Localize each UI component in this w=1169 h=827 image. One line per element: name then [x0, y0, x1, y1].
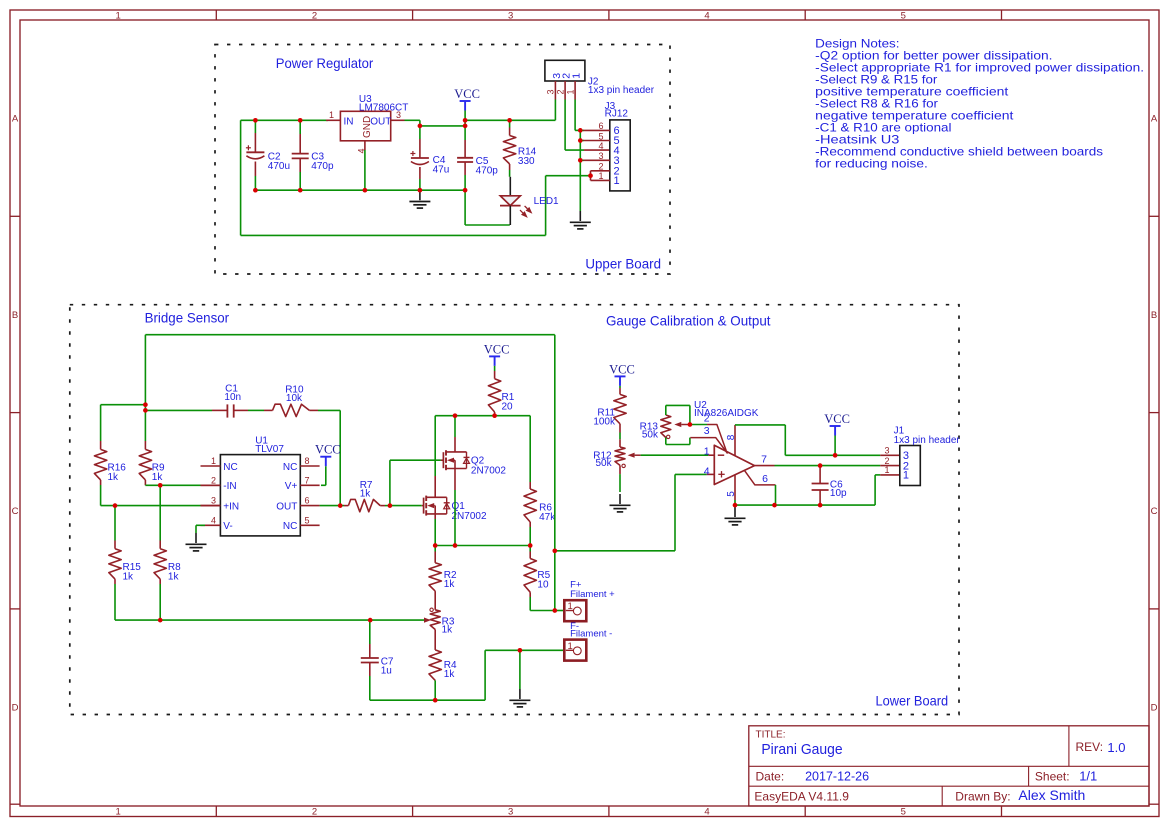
- svg-text:VCC: VCC: [824, 412, 850, 426]
- svg-text:OUT: OUT: [370, 117, 391, 128]
- svg-text:1k: 1k: [360, 489, 372, 500]
- svg-text:VCC: VCC: [484, 342, 510, 356]
- svg-text:+IN: +IN: [223, 501, 239, 512]
- svg-text:INA826AIDGK: INA826AIDGK: [694, 408, 759, 419]
- svg-text:NC: NC: [283, 521, 297, 532]
- svg-text:1: 1: [903, 470, 909, 482]
- svg-text:1/1: 1/1: [1079, 769, 1097, 784]
- svg-text:RJ12: RJ12: [605, 109, 629, 120]
- svg-text:Gauge Calibration & Output: Gauge Calibration & Output: [606, 313, 771, 329]
- svg-text:1: 1: [116, 807, 121, 818]
- svg-text:Power Regulator: Power Regulator: [276, 55, 374, 71]
- svg-text:REV:: REV:: [1076, 740, 1104, 754]
- svg-text:4: 4: [704, 465, 710, 477]
- svg-text:A: A: [12, 114, 19, 125]
- svg-text:3: 3: [546, 89, 556, 94]
- svg-text:1k: 1k: [108, 472, 120, 483]
- svg-text:1k: 1k: [152, 472, 164, 483]
- svg-text:C: C: [1151, 506, 1158, 517]
- svg-text:1u: 1u: [381, 666, 392, 677]
- svg-text:1: 1: [884, 465, 889, 475]
- svg-text:-IN: -IN: [223, 481, 236, 492]
- svg-text:1k: 1k: [123, 571, 135, 582]
- svg-text:1: 1: [614, 175, 620, 187]
- svg-text:7: 7: [305, 475, 310, 485]
- svg-text:6: 6: [305, 496, 310, 506]
- svg-text:10k: 10k: [286, 393, 303, 404]
- svg-text:5: 5: [901, 807, 906, 818]
- svg-text:D: D: [1151, 703, 1158, 714]
- svg-text:50k: 50k: [642, 429, 659, 440]
- svg-text:1k: 1k: [442, 625, 454, 636]
- svg-text:VCC: VCC: [609, 362, 635, 376]
- svg-text:A: A: [1151, 114, 1158, 125]
- svg-text:5: 5: [305, 515, 310, 525]
- svg-text:1: 1: [211, 456, 216, 466]
- svg-text:Filament +: Filament +: [570, 589, 615, 600]
- svg-text:C: C: [12, 506, 19, 517]
- svg-text:8: 8: [726, 434, 737, 440]
- svg-text:Bridge Sensor: Bridge Sensor: [145, 309, 230, 325]
- svg-text:2N7002: 2N7002: [471, 465, 506, 476]
- svg-text:4: 4: [598, 141, 603, 151]
- svg-text:TLV07: TLV07: [255, 444, 284, 455]
- svg-text:VCC: VCC: [315, 443, 341, 457]
- svg-text:3: 3: [704, 425, 710, 437]
- svg-text:Pirani Gauge: Pirani Gauge: [761, 741, 842, 758]
- svg-text:10: 10: [537, 579, 549, 590]
- svg-text:Sheet:: Sheet:: [1035, 770, 1070, 784]
- svg-text:470p: 470p: [311, 161, 334, 172]
- svg-text:3: 3: [884, 446, 889, 456]
- svg-text:Alex Smith: Alex Smith: [1018, 787, 1085, 803]
- svg-text:V-: V-: [223, 521, 232, 532]
- svg-text:5: 5: [726, 491, 737, 497]
- svg-text:Lower Board: Lower Board: [876, 692, 949, 708]
- svg-text:470u: 470u: [268, 161, 290, 172]
- svg-text:50k: 50k: [595, 458, 612, 469]
- svg-text:IN: IN: [344, 117, 354, 128]
- svg-text:470p: 470p: [476, 165, 499, 176]
- svg-text:47u: 47u: [433, 165, 450, 176]
- svg-text:1: 1: [565, 89, 575, 94]
- svg-text:10n: 10n: [224, 392, 241, 403]
- svg-text:100k: 100k: [593, 417, 616, 428]
- svg-text:1x3 pin header: 1x3 pin header: [588, 85, 655, 96]
- svg-text:D: D: [12, 703, 19, 714]
- svg-text:1k: 1k: [444, 669, 456, 680]
- svg-text:4: 4: [211, 515, 216, 525]
- svg-text:1k: 1k: [444, 579, 456, 590]
- svg-text:EasyEDA V4.11.9: EasyEDA V4.11.9: [754, 789, 849, 803]
- svg-text:OUT: OUT: [276, 501, 297, 512]
- svg-text:1: 1: [571, 73, 583, 79]
- svg-text:Drawn By:: Drawn By:: [955, 789, 1010, 803]
- svg-text:2: 2: [312, 807, 317, 818]
- svg-text:LM7806CT: LM7806CT: [359, 102, 408, 113]
- svg-text:Date:: Date:: [756, 770, 785, 784]
- svg-text:2: 2: [312, 10, 317, 21]
- svg-text:7: 7: [761, 454, 767, 466]
- svg-text:20: 20: [502, 402, 514, 413]
- svg-text:for reducing noise.: for reducing noise.: [815, 156, 928, 170]
- svg-text:47k: 47k: [539, 512, 556, 523]
- svg-text:1k: 1k: [168, 571, 180, 582]
- svg-text:GND: GND: [362, 116, 373, 138]
- svg-text:3: 3: [508, 10, 513, 21]
- svg-text:8: 8: [305, 456, 310, 466]
- svg-text:Filament -: Filament -: [570, 629, 612, 640]
- svg-text:2: 2: [211, 475, 216, 485]
- svg-text:6: 6: [762, 473, 768, 485]
- svg-text:330: 330: [518, 156, 535, 167]
- svg-text:3: 3: [211, 496, 216, 506]
- svg-text:B: B: [1151, 310, 1157, 321]
- svg-text:3: 3: [508, 807, 513, 818]
- svg-text:1x3 pin header: 1x3 pin header: [894, 435, 961, 446]
- svg-text:10p: 10p: [830, 488, 847, 499]
- svg-text:TITLE:: TITLE:: [756, 730, 786, 741]
- svg-text:1.0: 1.0: [1107, 740, 1125, 755]
- svg-text:B: B: [12, 310, 18, 321]
- svg-text:NC: NC: [223, 462, 237, 473]
- svg-text:Upper Board: Upper Board: [585, 256, 661, 272]
- svg-text:2017-12-26: 2017-12-26: [805, 770, 869, 784]
- svg-text:2: 2: [555, 89, 565, 94]
- svg-text:1: 1: [329, 110, 334, 120]
- svg-text:NC: NC: [283, 462, 297, 473]
- svg-text:2N7002: 2N7002: [452, 511, 487, 522]
- svg-text:V+: V+: [285, 481, 298, 492]
- svg-text:5: 5: [901, 10, 906, 21]
- svg-text:VCC: VCC: [454, 87, 480, 101]
- svg-text:1: 1: [116, 10, 121, 21]
- svg-text:LED1: LED1: [534, 196, 559, 207]
- svg-text:1: 1: [704, 446, 710, 458]
- svg-text:4: 4: [704, 10, 709, 21]
- svg-text:4: 4: [704, 807, 709, 818]
